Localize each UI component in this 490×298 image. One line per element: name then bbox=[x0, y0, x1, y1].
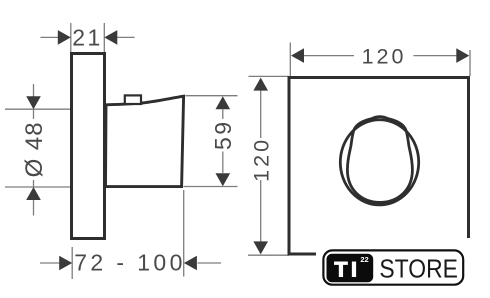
svg-text:STORE: STORE bbox=[379, 256, 458, 284]
svg-text:120: 120 bbox=[362, 44, 407, 68]
svg-text:72 - 100: 72 - 100 bbox=[74, 249, 186, 275]
svg-text:120: 120 bbox=[249, 137, 273, 182]
svg-text:22: 22 bbox=[360, 255, 368, 264]
svg-text:Ø 48: Ø 48 bbox=[21, 121, 48, 177]
svg-text:59: 59 bbox=[210, 119, 236, 150]
svg-text:21: 21 bbox=[72, 24, 103, 50]
svg-text:TI: TI bbox=[334, 257, 360, 281]
